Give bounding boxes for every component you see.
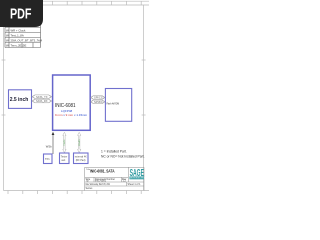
svg-text:SPI/CS: SPI/CS: [94, 97, 103, 100]
title block row texts: [86, 178, 142, 190]
bus arrow GPIO vertical: [78, 132, 81, 152]
svg-text:PDF: PDF: [10, 6, 32, 23]
svg-text:INIC-6081_SATA: INIC-6081_SATA: [90, 168, 115, 173]
svg-text:W: W: [6, 38, 9, 42]
svg-text:GPIO: GPIO: [78, 140, 80, 147]
svg-text:1 = Installed Part.: 1 = Installed Part.: [101, 149, 127, 153]
svg-text:Flash 4k ROM: Flash 4k ROM: [107, 102, 120, 106]
logo SAGE: [130, 168, 150, 180]
block J1 2.5 inch HDD connector: [9, 90, 32, 109]
svg-text:2.5 inch: 2.5 inch: [10, 97, 29, 103]
svg-text:9 mm x 9 mm x 1.15mm: 9 mm x 9 mm x 1.15mm: [55, 113, 88, 117]
svg-text:WR + Clock: WR + Clock: [11, 28, 26, 32]
svg-text:MICROELECTRONICS: MICROELECTRONICS: [130, 178, 149, 180]
PDF badge: [0, 0, 43, 27]
svg-text:uart: uart: [61, 159, 65, 162]
svg-text:(RF Pad): (RF Pad): [76, 159, 86, 162]
svg-text:SPI/DI: SPI/DI: [94, 101, 103, 104]
block U2 Flash 4k ROM: [105, 89, 131, 122]
bus arrow SATA TX: [32, 95, 52, 99]
bus arrow SPI lower: [91, 100, 106, 104]
svg-text:Twm_2E15E: Twm_2E15E: [11, 43, 27, 47]
sheet border frame: [0, 1, 149, 194]
svg-text:NC or NO= Not Installed Part.: NC or NO= Not Installed Part.: [101, 154, 145, 158]
revision table: [5, 23, 41, 48]
IC U1 INIC-6081 main block: [53, 75, 91, 130]
svg-text:WSb: WSb: [46, 144, 52, 148]
bus arrow I2C vertical: [63, 132, 66, 152]
svg-text:25M_OUT_BT_BT5_TsM: 25M_OUT_BT_BT5_TsM: [11, 38, 43, 42]
note installed parts: [101, 149, 145, 158]
svg-text:Date: Wednesday, March 05, 20: Date: Wednesday, March 05, 2014: [86, 183, 111, 186]
bus arrow SPI upper: [91, 96, 106, 100]
block J3 external 4K pad: [74, 153, 89, 164]
svg-text:SATA_TX: SATA_TX: [36, 96, 48, 99]
bus arrow SATA RX: [32, 99, 52, 103]
svg-text:Series: Series: [86, 187, 94, 190]
block J2 tester uart: [60, 153, 70, 164]
svg-text:W: W: [6, 33, 9, 37]
svg-text:TPx: TPx: [45, 157, 50, 161]
title text INIC-6081_SATA: [86, 168, 115, 173]
svg-text:SATA_RX: SATA_RX: [36, 100, 48, 103]
revision table row texts: [6, 23, 43, 47]
svg-text:W: W: [6, 28, 9, 32]
title block: [85, 167, 144, 190]
svg-text:I2C: I2C: [63, 140, 65, 147]
svg-text:Test_1_8A: Test_1_8A: [11, 33, 24, 37]
svg-text:W: W: [6, 43, 9, 47]
svg-text:Sheet 1 of 1: Sheet 1 of 1: [128, 183, 142, 186]
block D1 LED: [44, 154, 53, 164]
wire LED pin with arrow: [46, 132, 55, 154]
